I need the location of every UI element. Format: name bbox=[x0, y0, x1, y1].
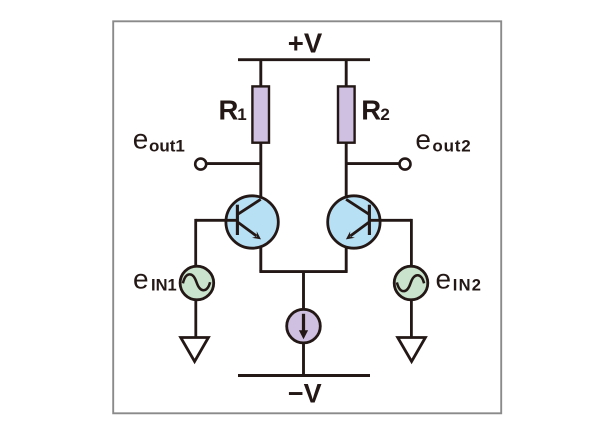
transistor Q1 bbox=[226, 196, 278, 248]
outer frame bbox=[113, 21, 501, 413]
ground (right) bbox=[398, 338, 426, 362]
resistor R1 bbox=[252, 86, 269, 142]
svg-text:e: e bbox=[415, 124, 431, 155]
svg-text:e: e bbox=[133, 124, 149, 155]
terminal eout1 bbox=[195, 159, 206, 170]
svg-text:out1: out1 bbox=[149, 136, 185, 155]
source eIN2 bbox=[394, 266, 428, 300]
current source I1 bbox=[287, 309, 321, 343]
svg-text:−V: −V bbox=[288, 378, 322, 408]
source eIN1 bbox=[180, 266, 214, 300]
wire tail down bbox=[302, 272, 305, 310]
wire eout2 tap bbox=[346, 162, 400, 165]
wire Q1 base lead bbox=[196, 219, 237, 222]
wire +V to R2 bbox=[345, 60, 348, 87]
svg-text:+V: +V bbox=[288, 27, 323, 58]
terminal eout2 bbox=[400, 159, 411, 170]
svg-text:R: R bbox=[361, 95, 381, 126]
svg-text:2: 2 bbox=[380, 105, 389, 124]
wire R1 to Q1 collector bbox=[259, 143, 262, 200]
svg-text:e: e bbox=[133, 264, 149, 295]
svg-text:1: 1 bbox=[237, 105, 246, 124]
wire R2 to Q2 collector bbox=[345, 143, 348, 200]
svg-text:out2: out2 bbox=[432, 136, 471, 155]
wire emitter join bbox=[259, 270, 347, 273]
wire +V rail bbox=[238, 58, 370, 61]
wire eIN2 to ground bbox=[410, 300, 413, 338]
svg-text:IN1: IN1 bbox=[151, 276, 177, 294]
wire eout1 tap bbox=[206, 162, 261, 165]
wire Q2 base lead bbox=[369, 219, 411, 222]
wire Q1 emitter down bbox=[259, 247, 262, 272]
wire eIN1 to ground bbox=[194, 300, 197, 338]
svg-text:R: R bbox=[219, 94, 239, 125]
wire -V rail bbox=[238, 374, 370, 377]
wire +V to R1 bbox=[259, 60, 262, 87]
wire current source to -V bbox=[302, 344, 305, 376]
resistor R2 bbox=[338, 86, 355, 142]
transistor Q2 bbox=[328, 196, 380, 248]
wire Q2 emitter down bbox=[345, 247, 348, 272]
wire eIN1 to base bbox=[194, 219, 197, 267]
wire eIN2 to base bbox=[410, 219, 413, 267]
svg-text:e: e bbox=[436, 264, 452, 295]
svg-text:IN2: IN2 bbox=[453, 277, 482, 295]
ground (left) bbox=[181, 338, 209, 362]
